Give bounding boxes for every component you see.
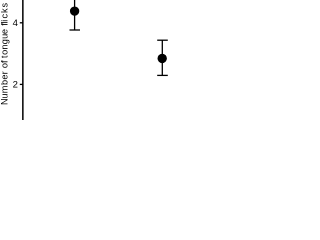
svg-text:2: 2 [13, 80, 18, 91]
svg-text:4: 4 [13, 18, 18, 29]
svg-text:Numberoftongueflicks: Numberoftongueflicks [0, 3, 10, 106]
